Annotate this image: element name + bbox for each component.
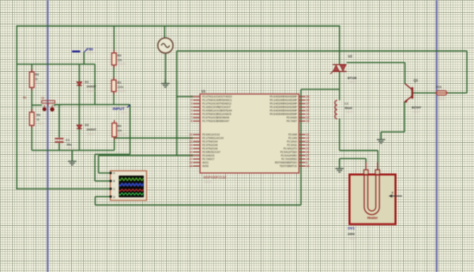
svg-text:BC547: BC547: [412, 106, 422, 110]
svg-text:24: 24: [306, 143, 309, 147]
wire sine bottom stem: [164, 53, 166, 83]
op chip U1 microcontroller: [189, 90, 309, 184]
svg-text:P2.6/ADC6: P2.6/ADC6: [202, 155, 215, 158]
wire Q1 emitter down: [404, 102, 406, 132]
wire Q1 base to fuse: [413, 92, 437, 94]
svg-text:INPUT: INPUT: [113, 106, 126, 111]
svg-text:<TEXT>: <TEXT>: [345, 111, 355, 114]
svg-text:AVSS: AVSS: [202, 165, 209, 168]
svg-text:37: 37: [306, 102, 309, 106]
svg-text:<TEXT>: <TEXT>: [117, 63, 127, 66]
ground Q1 emitter: [380, 133, 382, 140]
svg-text:39: 39: [306, 95, 309, 99]
wire R1 bottom stub: [113, 92, 115, 105]
svg-text:5: 5: [191, 109, 193, 113]
ground below heater left pin: [339, 159, 341, 169]
svg-text:10: 10: [189, 133, 192, 137]
svg-text:19: 19: [189, 161, 192, 165]
svg-text:R3: R3: [35, 73, 39, 77]
svg-text:<TEXT>: <TEXT>: [37, 123, 47, 126]
wire to triac node horizontal: [301, 88, 340, 90]
svg-text:28: 28: [306, 157, 309, 161]
U1 pin 21 P2.0/A8: [288, 133, 309, 137]
oscilloscope: [110, 171, 147, 201]
svg-text:6: 6: [191, 112, 193, 116]
svg-text:P2.3/TA1/CA5: P2.3/TA1/CA5: [202, 144, 218, 147]
wire R3 bottom to button row: [31, 88, 33, 113]
svg-text:P2.4/TA2/CA6: P2.4/TA2/CA6: [202, 148, 218, 151]
svg-text:P0.4/AD4/KBIN4/AD4MP: P0.4/AD4/KBIN4/AD4MP: [270, 110, 298, 113]
resistor R4: [30, 109, 47, 128]
wire inductor bottom drop: [339, 119, 341, 151]
svg-text:36: 36: [306, 105, 309, 109]
U1 pin 2 P1.1/TA0/UCA0RXD/ADC1: [191, 98, 233, 102]
sheet blue divider line right: [436, 0, 438, 272]
svg-text:P2.4/A12/T2: P2.4/A12/T2: [283, 148, 297, 151]
svg-text:F50: F50: [86, 47, 93, 51]
svg-text:8: 8: [191, 119, 193, 123]
wire Q1 collector top: [347, 62, 405, 64]
svg-text:P0.2/AD2/KBIN2/AD2MP: P0.2/AD2/KBIN2/AD2MP: [270, 103, 298, 106]
wire left rail to scope channel C: [16, 188, 110, 190]
wire scope D drop: [94, 197, 96, 205]
wire scope A / MCU P3.6 horizontal: [99, 155, 194, 157]
svg-text:R1: R1: [117, 81, 121, 85]
wire emitter to ground: [381, 131, 405, 133]
resistor R3: [30, 69, 45, 91]
U1 pin 23 P2.2/A10: [287, 140, 310, 144]
U1 pin 30 TEST/SBWTCK: [280, 164, 310, 168]
svg-text:10k: 10k: [117, 128, 122, 132]
svg-text:25: 25: [306, 147, 309, 151]
svg-text:<TEXT>: <TEXT>: [348, 238, 358, 241]
resistor R5: [112, 120, 127, 140]
wire heater left pin to ground: [340, 158, 366, 160]
wire MCU right column vertical: [300, 89, 302, 205]
AC sine source: [158, 38, 173, 53]
svg-text:<TEXT>: <TEXT>: [67, 148, 77, 151]
svg-text:<TEXT>: <TEXT>: [35, 82, 45, 85]
wire left rail: [16, 25, 18, 189]
U1 pin 14 P2.4/TA2/CA6: [189, 147, 218, 151]
svg-text:P0.1/AD1/KBIN1/AD1MP: P0.1/AD1/KBIN1/AD1MP: [270, 99, 298, 102]
svg-text:C: C: [113, 188, 115, 191]
svg-text:1k: 1k: [35, 77, 39, 81]
svg-text:35: 35: [306, 109, 309, 113]
fuse FU1: [435, 85, 448, 101]
svg-text:33: 33: [306, 116, 309, 120]
svg-text:18: 18: [189, 164, 192, 168]
svg-text:1N4007: 1N4007: [86, 84, 96, 88]
svg-text:<TEXT>: <TEXT>: [204, 181, 214, 184]
svg-text:FU1: FU1: [436, 85, 442, 89]
svg-text:U1: U1: [202, 90, 206, 94]
U1 pin 8 P1.7/TA2/UCB0SIMO/A7: [191, 119, 230, 123]
U1 pin 39 P0.0/AD0/KBIN0/AD0MP: [270, 95, 310, 99]
wire D2 bottom stem: [78, 129, 80, 151]
svg-text:Q1: Q1: [414, 79, 419, 83]
U1 pin 7 P1.6/TA1/UCB0SOMI/A6: [191, 116, 230, 120]
diode D1: [77, 80, 97, 93]
svg-text:P2.7/A15/RD2: P2.7/A15/RD2: [281, 158, 297, 161]
wire top rail: [17, 25, 340, 27]
U1 pin 5 P1.4/SMCLK/UCB0STE/A4: [191, 109, 233, 113]
svg-text:<TEXT>: <TEXT>: [117, 134, 127, 137]
wire probe to scope B horizontal: [95, 153, 130, 155]
wire top rail drop to triac: [339, 25, 341, 64]
svg-text:10k: 10k: [117, 58, 122, 62]
svg-text:P2.7/ADC7: P2.7/ADC7: [202, 158, 215, 161]
voltage probe F50 top-left: [72, 47, 95, 54]
wire R3 top stub: [31, 64, 33, 72]
svg-text:AVCC: AVCC: [202, 162, 209, 165]
svg-text:<TEXT>: <TEXT>: [412, 111, 422, 114]
wire D1-D2 junction column: [78, 86, 80, 125]
svg-text:P0.6/AD6: P0.6/AD6: [287, 117, 298, 120]
svg-text:3: 3: [191, 102, 193, 106]
voltage probe INPUT: [113, 105, 130, 115]
svg-text:P1.3/ADC3/VREF/CAOUT: P1.3/ADC3/VREF/CAOUT: [202, 106, 231, 109]
U1 pin 34 P0.5/AD5/KBIN5/AD5MP: [270, 112, 310, 116]
U1 pin 12 P2.2/TA0/CA4: [189, 140, 218, 144]
wire C1 bottom stem: [58, 143, 60, 151]
resistor R2: [112, 50, 127, 68]
wire to heater right pin: [340, 150, 378, 152]
svg-text:34: 34: [306, 112, 309, 116]
wire R2-R1 link: [113, 65, 115, 80]
svg-text:1N4007: 1N4007: [86, 128, 96, 132]
svg-text:<TEXT>: <TEXT>: [86, 90, 96, 93]
svg-text:R5: R5: [117, 124, 121, 128]
svg-text:P2.6/A14/WR2: P2.6/A14/WR2: [281, 155, 298, 158]
U1 pin 28 P2.7/A15/RD2: [281, 157, 309, 161]
svg-text:220V: 220V: [348, 232, 355, 236]
svg-text:17: 17: [189, 157, 192, 161]
svg-text:12: 12: [189, 140, 192, 144]
svg-text:R2: R2: [117, 54, 121, 58]
U1 pin 11 P2.1/TAINCLK/CA3: [189, 136, 224, 140]
U1 pin 36 P0.3/AD3/KBIN3/AD3MP: [270, 105, 310, 109]
svg-text:P1.7/TA2/UCB0SIMO/A7: P1.7/TA2/UCB0SIMO/A7: [202, 120, 230, 123]
svg-text:P2.5/A13/T2EX: P2.5/A13/T2EX: [280, 151, 297, 154]
U1 pin 18 AVSS: [189, 164, 209, 168]
U1 pin 4 P1.3/ADC3/VREF/CAOUT: [191, 105, 232, 109]
wire scope B drop: [94, 154, 96, 181]
svg-text:T: T: [392, 191, 394, 195]
wire second rail: [17, 63, 95, 65]
svg-text:30: 30: [306, 164, 309, 168]
svg-text:D: D: [113, 196, 115, 199]
svg-text:TEST/SBWTCK: TEST/SBWTCK: [280, 165, 298, 168]
wire branch to MCU pin1: [177, 96, 193, 98]
svg-text:<TEXT>: <TEXT>: [86, 133, 96, 136]
svg-text:2: 2: [191, 98, 193, 102]
diode D2: [77, 123, 97, 136]
wire scope D lead: [95, 196, 110, 198]
svg-text:P2.0/ACLK/CA2: P2.0/ACLK/CA2: [202, 134, 220, 137]
svg-text:21: 21: [306, 133, 309, 137]
U1 pin 19 AVCC: [189, 161, 209, 165]
svg-text:P1.6/TA1/UCB0SOMI/A6: P1.6/TA1/UCB0SOMI/A6: [202, 117, 230, 120]
U1 pin 24 P2.3/A11: [287, 143, 310, 147]
svg-text:14: 14: [189, 147, 192, 151]
U1 pin 32 P0.7/AD7: [287, 119, 310, 123]
U1 pin 22 P2.1/A9: [288, 136, 309, 140]
svg-text:D1: D1: [85, 80, 89, 84]
svg-text:OK: OK: [41, 97, 45, 100]
transistor Q1: [404, 79, 421, 114]
svg-text:9: 9: [306, 161, 308, 165]
wire R5 node to MCU P3 pin: [114, 137, 193, 139]
svg-text:P1.5/TA0/UCB0CLK/ADC5: P1.5/TA0/UCB0CLK/ADC5: [202, 113, 232, 116]
svg-text:P2.1/A9: P2.1/A9: [288, 137, 297, 140]
U1 pin 37 P0.2/AD2/KBIN2/AD2MP: [270, 102, 310, 106]
svg-text:P0.5/AD5/KBIN5/AD5MP: P0.5/AD5/KBIN5/AD5MP: [270, 113, 298, 116]
svg-text:P2.5/ROSC/CA7: P2.5/ROSC/CA7: [202, 151, 221, 154]
svg-text:R4: R4: [37, 113, 41, 117]
svg-text:4: 4: [191, 105, 193, 109]
svg-text:S1: S1: [23, 96, 27, 100]
capacitor C1: [55, 138, 76, 151]
ground below sine source: [164, 79, 166, 84]
svg-text:P2.3/A11: P2.3/A11: [287, 144, 297, 147]
resistor R1: [112, 77, 127, 95]
wire scope B lead: [95, 180, 111, 182]
wire fuse right: [447, 92, 467, 94]
svg-text:13: 13: [189, 143, 192, 147]
svg-text:15: 15: [189, 150, 192, 154]
U1 pin 27 P2.6/A14/WR2: [281, 154, 310, 158]
U1 pin 10 P2.0/ACLK/CA2: [189, 133, 220, 137]
U1 pin 25 P2.4/A12/T2: [283, 147, 309, 151]
U1 pin 17 P2.7/ADC7: [189, 157, 215, 161]
wire AC corner drop: [176, 51, 178, 156]
wire input probe drop: [129, 105, 131, 155]
svg-text:RST/NMI/SBWTDIO: RST/NMI/SBWTDIO: [275, 162, 297, 165]
svg-text:Heater: Heater: [367, 216, 378, 220]
U1 pin 26 P2.5/A13/T2EX: [280, 150, 310, 154]
svg-text:C1: C1: [66, 138, 70, 142]
wire AC distribution horizontal: [177, 50, 467, 52]
svg-text:P1.1/TA0/UCA0RXD/ADC1: P1.1/TA0/UCA0RXD/ADC1: [202, 99, 232, 102]
U1 pin 35 P0.4/AD4/KBIN4/AD4MP: [270, 109, 310, 113]
svg-text:<TEXT>: <TEXT>: [120, 111, 129, 114]
U1 pin 9 RST/NMI/SBWTDIO: [275, 161, 308, 165]
wire C1 top stem: [58, 105, 60, 138]
U1 pin 15 P2.5/ROSC/CA7: [189, 150, 221, 154]
U1 pin 6 P1.5/TA0/UCB0CLK/ADC5: [191, 112, 232, 116]
wire scope A drop: [98, 156, 100, 174]
svg-text:L1: L1: [345, 102, 349, 106]
svg-text:D2: D2: [85, 123, 89, 127]
heater OV1: [348, 162, 396, 240]
wire R2 top stub from rail: [113, 26, 115, 53]
wire probe stem top-left: [83, 52, 85, 64]
wire button right lead: [54, 104, 56, 106]
U1 pin 38 P0.1/AD1/KBIN1/AD1MP: [270, 98, 310, 102]
svg-text:7: 7: [191, 116, 193, 120]
U1 pin 33 P0.6/AD6: [287, 116, 310, 120]
svg-text:<TEXT>: <TEXT>: [437, 98, 447, 101]
wire triac to inductor: [339, 71, 341, 100]
wire rail drop to input node: [94, 64, 96, 104]
svg-text:P2.2/TA0/CA4: P2.2/TA0/CA4: [202, 141, 218, 144]
svg-text:P2.1/TAINCLK/CA3: P2.1/TAINCLK/CA3: [202, 137, 224, 140]
wire sine top stem: [164, 26, 166, 38]
svg-text:P0.0/AD0/KBIN0/AD0MP: P0.0/AD0/KBIN0/AD0MP: [270, 96, 298, 99]
U1 pin 1 P1.0/TACLK/CAOUT/ADC0: [191, 95, 233, 99]
svg-text:32: 32: [306, 119, 309, 123]
wire input node horizontal: [55, 104, 130, 106]
svg-text:<TEXT>: <TEXT>: [348, 81, 358, 84]
svg-text:MSP430F2132: MSP430F2132: [204, 176, 227, 180]
wire R5 bottom stub / bus turn up: [113, 137, 115, 151]
svg-text:22: 22: [306, 136, 309, 140]
wire ground bus: [32, 149, 115, 151]
svg-text:P2.0/A8: P2.0/A8: [288, 134, 297, 137]
ground on left bus: [71, 150, 73, 161]
wire scope A lead: [99, 172, 111, 174]
temperature probe T: [389, 191, 402, 198]
button S1: [23, 96, 55, 112]
svg-text:<TEXT>: <TEXT>: [86, 52, 95, 55]
svg-text:P1.2/TA1/UCA0TXD/ADC2: P1.2/TA1/UCA0TXD/ADC2: [202, 103, 232, 106]
svg-text:P0.7/AD7: P0.7/AD7: [287, 120, 298, 123]
svg-text:OV1: OV1: [348, 227, 355, 231]
svg-text:BT136: BT136: [348, 76, 357, 80]
svg-text:1k: 1k: [37, 117, 41, 121]
svg-text:60mH: 60mH: [345, 106, 352, 110]
svg-text:27: 27: [306, 154, 309, 158]
wire R4 bottom stub: [31, 125, 33, 150]
inductor L1: [335, 100, 354, 118]
svg-text:P1.4/SMCLK/UCB0STE/A4: P1.4/SMCLK/UCB0STE/A4: [202, 110, 232, 113]
svg-text:38: 38: [306, 98, 309, 102]
wire bottom long horizontal: [95, 204, 301, 206]
svg-text:P2.2/A10: P2.2/A10: [287, 141, 298, 144]
svg-text:P1.0/TACLK/CAOUT/ADC0: P1.0/TACLK/CAOUT/ADC0: [202, 96, 232, 99]
wire button left lead: [32, 104, 42, 106]
svg-text:P0.3/AD3/KBIN3/AD3MP: P0.3/AD3/KBIN3/AD3MP: [270, 106, 298, 109]
U1 pin 16 P2.6/ADC6: [189, 154, 215, 158]
svg-text:U2: U2: [348, 55, 352, 59]
svg-text:100k: 100k: [117, 85, 124, 89]
wire D1 top stem: [78, 64, 80, 82]
svg-text:23: 23: [306, 140, 309, 144]
sheet blue divider line left: [47, 0, 49, 272]
wire AC down right side: [466, 51, 468, 93]
triac U2: [330, 55, 357, 84]
U1 pin 13 P2.3/TA1/CA5: [189, 143, 218, 147]
svg-text:<TEXT>: <TEXT>: [117, 90, 127, 93]
svg-text:26: 26: [306, 150, 309, 154]
U1 pin 3 P1.2/TA1/UCA0TXD/ADC2: [191, 102, 232, 106]
svg-text:10u: 10u: [67, 143, 72, 147]
